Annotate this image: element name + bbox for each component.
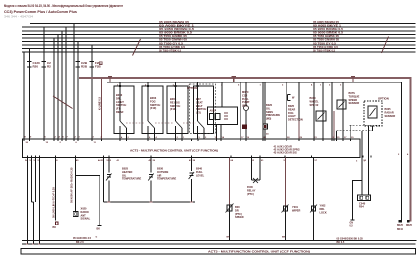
svg-text:WIPER: WIPER	[292, 208, 301, 212]
option dashed box right	[364, 101, 382, 126]
svg-text:2: 2	[55, 137, 57, 139]
svg-text:OIL: OIL	[266, 106, 271, 110]
wire drop x66	[65, 27, 67, 139]
svg-text:DETECTION: DETECTION	[288, 118, 303, 122]
svg-text:5: 5	[238, 84, 240, 86]
radar sensor symbol	[368, 106, 377, 118]
svg-text:05 T050 GN/WH 05: 05 T050 GN/WH 05	[159, 39, 188, 42]
rail end labels	[406, 225, 413, 227]
drop from rail into B07	[197, 82, 199, 121]
svg-text:05 T050 GY 0.5: 05 T050 GY 0.5	[313, 42, 337, 45]
svg-text:41: 41	[117, 159, 120, 162]
sensor wire x191.4	[190, 158, 192, 172]
svg-text:LEVEL: LEVEL	[196, 173, 205, 177]
svg-text:LOCK: LOCK	[320, 210, 327, 214]
drop from rail into B002	[119, 82, 121, 121]
M070 fuel pump label	[242, 90, 250, 108]
wire B005 to unit	[181, 128, 183, 139]
wire B003 to unit	[154, 128, 156, 139]
svg-text:2: 2	[282, 84, 284, 86]
svg-text:M070: M070	[242, 90, 249, 94]
bus wire 3	[22, 30, 416, 32]
B025 oil temp sensor symbol	[107, 175, 111, 178]
B020 symbol	[263, 124, 268, 129]
B0xx PTC symbol	[227, 205, 232, 211]
relay F000 element	[253, 178, 258, 183]
B0xx PTC wire upper (maroon)	[229, 158, 231, 206]
svg-text:05 K000 AF SIG+ RADIO 0.35: 05 K000 AF SIG+ RADIO 0.35	[69, 167, 73, 203]
svg-text:FUEL: FUEL	[242, 97, 249, 101]
svg-text:BK 2.5: BK 2.5	[76, 241, 84, 244]
B07S label	[349, 91, 360, 105]
bus wire 2	[22, 26, 416, 28]
right rail end pad	[399, 220, 401, 223]
svg-text:05 G040/G050 BK 0.35: 05 G040/G050 BK 0.35	[337, 237, 364, 240]
svg-text:BK: BK	[282, 237, 286, 239]
cluster box middle	[208, 107, 238, 125]
svg-text:B010: B010	[310, 96, 317, 100]
unit top pin ticks	[24, 139, 350, 141]
branch wire step	[76, 176, 100, 226]
svg-text:11: 11	[94, 142, 97, 144]
bus wire 8	[22, 48, 416, 50]
bus wire 9	[22, 51, 416, 53]
box top entry pads	[119, 85, 199, 87]
svg-text:SENSOR: SENSOR	[385, 114, 396, 118]
svg-text:BK: BK	[53, 226, 57, 229]
Y002 label	[320, 204, 327, 215]
crossover slash mid	[133, 39, 141, 56]
svg-text:RADIO: RADIO	[81, 210, 89, 214]
svg-text:9: 9	[30, 137, 32, 139]
through wire B003	[147, 126, 149, 139]
wire B002 to unit	[126, 128, 128, 139]
svg-text:GN: GN	[350, 223, 354, 225]
svg-text:2: 2	[329, 84, 331, 86]
svg-text:REAR: REAR	[288, 107, 295, 111]
svg-text:0.5: 0.5	[350, 226, 354, 228]
svg-text:(F2): (F2)	[196, 111, 201, 115]
svg-text:RE.FOG: RE.FOG	[170, 100, 180, 104]
junction labels above ground A	[96, 237, 286, 239]
svg-text:38: 38	[193, 160, 196, 162]
svg-text:OIL: OIL	[122, 173, 127, 177]
svg-text:B030: B030	[157, 167, 164, 171]
sensor wire x108.8	[108, 158, 110, 173]
crossover slash right	[382, 37, 389, 54]
svg-text:OPTION: OPTION	[378, 97, 389, 101]
svg-text:(M3): (M3)	[266, 117, 271, 121]
svg-text:DRL: DRL	[116, 96, 122, 100]
pin numbers top of unit	[25, 133, 355, 139]
B020 oil pressure label	[266, 103, 280, 121]
divider x240.2	[239, 82, 241, 139]
sensor chain return wire x103.5	[103, 158, 105, 203]
divider x286.2	[285, 82, 287, 139]
crossover slash left area	[53, 96, 73, 109]
B025 label	[122, 167, 141, 181]
unit bottom pin ticks	[28, 155, 372, 157]
pin labels under box right	[356, 160, 366, 162]
svg-text:(F10): (F10)	[150, 106, 156, 110]
svg-text:B07S: B07S	[349, 91, 356, 95]
svg-text:B003: B003	[150, 96, 157, 100]
right rail end labels	[397, 225, 404, 231]
svg-text:TEMPERATURE: TEMPERATURE	[157, 177, 176, 181]
svg-text:BK: BK	[227, 237, 231, 239]
cluster out stub 1	[216, 125, 218, 139]
svg-text:FOG: FOG	[288, 111, 294, 115]
connector C140	[42, 62, 47, 68]
svg-text:3: 3	[340, 84, 342, 86]
wire x314 wheel sensor	[313, 82, 315, 139]
svg-text:4: 4	[59, 136, 61, 139]
B025 rear fog label	[288, 104, 303, 122]
svg-text:BK: BK	[97, 228, 101, 231]
svg-text:R2B: R2B	[81, 65, 88, 69]
dashed link upper	[350, 124, 382, 126]
hop marks on line B	[26, 243, 41, 245]
svg-text:OPTION: OPTION	[187, 86, 197, 90]
svg-text:DRL: DRL	[320, 207, 326, 211]
control unit box ACT3	[23, 139, 361, 158]
bus wire 1	[30, 23, 416, 25]
svg-text:64: 64	[231, 159, 234, 162]
wire drop x44	[43, 27, 45, 139]
svg-text:RD25: RD25	[406, 225, 413, 227]
wire x372.5 radar down	[372, 126, 374, 131]
branch end tick	[98, 225, 102, 227]
pin numbers inside unit top	[26, 142, 97, 144]
B005 radar label	[385, 107, 396, 118]
svg-text:05 T050 GN/WH 05: 05 T050 GN/WH 05	[313, 39, 340, 42]
svg-text:SPEED: SPEED	[349, 98, 358, 102]
svg-text:1: 1	[79, 137, 81, 139]
switch mechanical links	[126, 122, 196, 124]
plug symbol	[288, 95, 291, 101]
svg-text:RADAR: RADAR	[385, 110, 394, 114]
option dashed outline left	[190, 84, 216, 134]
svg-text:TEMPERATURE: TEMPERATURE	[122, 177, 141, 181]
wire x343	[342, 83, 344, 140]
dashed link lower	[337, 130, 373, 132]
Y002 symbol	[312, 206, 316, 211]
svg-text:WHEEL: WHEEL	[310, 99, 320, 103]
svg-text:61: 61	[261, 160, 264, 162]
svg-text:W: W	[292, 97, 295, 100]
F000 label	[247, 185, 256, 196]
svg-text:ACT3 - MULTIFUNCTION CONTROL: ACT3 - MULTIFUNCTION CONTROL UNIT (CCF F…	[130, 149, 218, 153]
sensor wire x151	[150, 158, 152, 173]
svg-text:05 9050 BR/BK 0.5: 05 9050 BR/BK 0.5	[159, 32, 193, 35]
svg-text:4: 4	[311, 83, 313, 86]
wire drop x24	[23, 52, 25, 139]
svg-text:1: 1	[320, 84, 322, 86]
svg-text:R20: R20	[33, 65, 39, 69]
svg-text:F000: F000	[247, 185, 253, 189]
svg-text:FOG: FOG	[150, 99, 156, 103]
svg-text:B002: B002	[116, 93, 123, 97]
svg-text:SWITCH: SWITCH	[150, 103, 160, 107]
B010 wheel label	[310, 96, 320, 107]
svg-text:05 9005 BK/WH 05: 05 9005 BK/WH 05	[313, 21, 340, 24]
svg-text:B020: B020	[266, 103, 273, 107]
bus wire 7	[22, 44, 416, 46]
switch contact in B07	[198, 121, 205, 128]
bottom wire x35.5	[35, 158, 37, 203]
svg-text:BK 0.5: BK 0.5	[337, 241, 345, 244]
svg-text:OUTSIDE: OUTSIDE	[157, 170, 169, 174]
wire drop x54	[53, 38, 55, 139]
svg-text:X020: X020	[81, 207, 88, 211]
box top pin numbers	[117, 83, 342, 86]
Y001 label	[292, 205, 301, 212]
svg-text:Y001: Y001	[292, 205, 299, 209]
svg-text:39: 39	[153, 160, 156, 162]
bus labels mid	[159, 21, 195, 53]
wire drop x92	[91, 45, 93, 139]
small net square	[56, 222, 59, 225]
wire x332	[331, 83, 333, 140]
svg-text:2: 2	[398, 154, 400, 156]
svg-text:05 9050 BR/BK 0.5: 05 9050 BR/BK 0.5	[313, 32, 344, 35]
connector C120	[27, 62, 32, 68]
divider x222 into cluster	[221, 82, 223, 107]
wire drop x58	[57, 34, 59, 139]
svg-text:7: 7	[67, 137, 69, 139]
svg-text:45: 45	[76, 159, 79, 162]
svg-text:8: 8	[25, 137, 27, 139]
svg-text:BELT: BELT	[196, 104, 203, 108]
svg-text:PRESSURE: PRESSURE	[266, 113, 280, 117]
svg-text:SWITCH: SWITCH	[116, 103, 126, 107]
B040 label	[196, 167, 205, 178]
svg-text:HEATED: HEATED	[122, 170, 132, 174]
svg-text:2: 2	[101, 137, 103, 139]
bottom wire x31.5	[31, 158, 33, 203]
svg-text:05 T050 VT/BK 0.5: 05 T050 VT/BK 0.5	[159, 49, 182, 52]
stub end label	[350, 223, 354, 228]
svg-text:SENSOR: SENSOR	[349, 101, 360, 105]
svg-text:3: 3	[356, 160, 358, 162]
svg-text:CC3) PowerComm Plus / AutoCo: CC3) PowerComm Plus / AutoComm Plus	[4, 9, 77, 14]
cluster out stub 2	[220, 125, 222, 139]
svg-text:05 L000 LIN A-T/C+F 0.35: 05 L000 LIN A-T/C+F 0.35	[52, 187, 56, 218]
pin numbers bottom of unit	[25, 159, 367, 162]
right wires to connector	[362, 125, 369, 195]
power rail (maroon)	[79, 78, 411, 222]
svg-text:K-LINE 0.5: K-LINE 0.5	[98, 96, 102, 110]
wire x323	[322, 83, 324, 140]
B0xx label	[235, 205, 244, 219]
B030 outside temp sensor symbol	[149, 175, 153, 178]
K-line wire maroon x101.5	[101, 78, 103, 139]
bottom wire x39.5	[39, 158, 41, 244]
svg-text:05 A005 BK/YE 1: 05 A005 BK/YE 1	[313, 25, 342, 28]
bottom wire x31.5 lower	[33, 202, 35, 244]
svg-text:B025: B025	[122, 167, 129, 171]
bottom wire x55.4 (LIN)	[54, 158, 56, 221]
through wire B002	[119, 126, 121, 139]
svg-text:SPEED: SPEED	[235, 215, 244, 219]
svg-text:B040: B040	[196, 167, 203, 171]
svg-text:5: 5	[45, 137, 47, 139]
svg-text:ANT: ANT	[81, 213, 87, 217]
B030 label	[157, 167, 176, 181]
maroon wire x333.8	[333, 111, 335, 139]
svg-text:05 G040 BK 2.5: 05 G040 BK 2.5	[73, 237, 92, 240]
svg-text:Y002: Y002	[320, 204, 327, 208]
relay F000 wires	[252, 158, 261, 181]
divider x262.8	[262, 82, 264, 139]
sensor common return	[104, 201, 196, 203]
wire drop x62	[61, 31, 63, 139]
bus wire 4	[22, 33, 416, 35]
left switch box B003	[142, 86, 163, 134]
bus wire 5	[22, 37, 416, 39]
svg-text:SEAT: SEAT	[196, 100, 203, 104]
svg-text:57: 57	[315, 160, 318, 162]
svg-text:4: 4	[121, 136, 123, 139]
svg-text:6: 6	[63, 137, 65, 139]
svg-text:2: 2	[60, 142, 62, 144]
svg-text:B025: B025	[288, 104, 295, 108]
svg-text:AIR: AIR	[157, 173, 162, 177]
control unit aux text	[274, 145, 300, 155]
svg-text:05 T050 GY 0.5: 05 T050 GY 0.5	[159, 42, 184, 45]
wire drop x29.5	[29, 49, 31, 139]
through wire B005	[175, 126, 177, 139]
switch contact in B003	[148, 121, 155, 128]
wire x350.3 down to unit	[349, 125, 351, 139]
ground line B	[22, 243, 416, 245]
switch contact in B002	[120, 121, 127, 128]
sensor symbol lower left right-block	[316, 111, 326, 121]
ground line A	[22, 239, 417, 241]
svg-text:R04: R04	[359, 205, 364, 209]
svg-text:(PTC): (PTC)	[247, 192, 254, 196]
temperature sensor symbol right	[337, 100, 346, 109]
rail junction x353	[352, 76, 354, 82]
svg-text:A010: A010	[210, 110, 217, 113]
svg-text:PUMP: PUMP	[242, 100, 250, 104]
bottom title bar	[21, 249, 415, 254]
svg-text:4: 4	[156, 136, 158, 139]
left switch box B005	[167, 86, 188, 134]
svg-text:F2B: F2B	[95, 65, 102, 69]
rail junction x110	[109, 76, 111, 82]
svg-text:BK10: BK10	[397, 229, 404, 231]
wire x246 fuel pump M070	[245, 82, 247, 105]
wire x299 rear fog detection	[298, 82, 300, 121]
svg-text:RELAY: RELAY	[247, 188, 256, 192]
svg-text:R2: R2	[47, 65, 51, 69]
svg-text:05 T050 VT/BK 0.5: 05 T050 VT/BK 0.5	[313, 49, 336, 52]
svg-text:05 9005 BK/WH 05: 05 9005 BK/WH 05	[159, 21, 190, 24]
bottom wire x75.6 (radio)	[75, 158, 77, 212]
M070 AND glyph	[242, 125, 247, 130]
svg-text:05 A005 BK/YE 1: 05 A005 BK/YE 1	[159, 25, 195, 28]
svg-text:SENS: SENS	[266, 110, 273, 114]
wire x336.5 down to unit	[336, 131, 338, 139]
svg-text:FUEL: FUEL	[196, 170, 203, 174]
through wire B07	[197, 126, 199, 139]
bus wire 6	[22, 40, 416, 42]
Y001 symbol	[284, 206, 288, 211]
B0xx PTC wire lower (black)	[229, 205, 231, 240]
svg-text:CO2: CO2	[242, 93, 248, 97]
svg-text:LIGHT: LIGHT	[288, 114, 296, 118]
connector C2B	[76, 62, 81, 68]
svg-text:43 AUX3 GEAR SIG: 43 AUX3 GEAR SIG	[274, 151, 297, 155]
switched rail (black)	[107, 82, 401, 222]
drop from rail into B005	[175, 82, 177, 121]
drop from rail into B003	[147, 82, 149, 121]
svg-text:ACT3 - MULTIFUNCTION CONTROL: ACT3 - MULTIFUNCTION CONTROL UNIT (CCF F…	[208, 250, 310, 254]
Y002 wire	[313, 158, 315, 241]
B040 fuel level sensor symbol	[189, 173, 193, 176]
connector C0xx box	[358, 195, 371, 201]
svg-text:G: G	[96, 237, 98, 239]
svg-text:1: 1	[260, 84, 262, 86]
svg-text:15: 15	[46, 142, 49, 144]
sensor line junction marks	[107, 201, 193, 203]
rail end pad	[407, 220, 409, 223]
svg-text:SPC 02: SPC 02	[310, 103, 319, 107]
net square x100	[99, 62, 102, 65]
svg-text:346 344 - 4547/34: 346 344 - 4547/34	[4, 15, 34, 19]
svg-text:3: 3	[93, 137, 95, 139]
svg-text:2: 2	[75, 137, 77, 139]
bus labels right	[313, 21, 344, 53]
bottom wire jog	[32, 201, 34, 203]
connector F2D	[90, 62, 95, 68]
option dashed box left	[194, 86, 214, 134]
wire x265 oil pressure B020	[264, 82, 266, 124]
C0xx label	[359, 202, 366, 209]
connector X020 symbol	[73, 212, 78, 217]
M070 motor symbol	[244, 106, 249, 111]
svg-text:B07: B07	[196, 97, 201, 101]
svg-text:(PTC): (PTC)	[235, 212, 242, 216]
wire drop x78	[77, 41, 79, 139]
svg-text:Модели с начала 54.00 54.25, 5: Модели с начала 54.00 54.25, 54.50 - Мно…	[4, 3, 123, 8]
sensor pin numbers	[101, 159, 192, 162]
svg-text:6: 6	[76, 142, 78, 144]
svg-text:B00: B00	[235, 205, 240, 209]
svg-text:62: 62	[252, 160, 255, 162]
svg-text:BK25: BK25	[397, 225, 404, 227]
left switch box B001	[114, 86, 134, 134]
bottom wire x27.5	[27, 158, 29, 244]
svg-text:30: 30	[26, 142, 29, 144]
X020 label	[81, 207, 91, 221]
switch contact in B005	[176, 121, 183, 128]
svg-text:14: 14	[222, 136, 225, 139]
svg-text:24: 24	[266, 133, 269, 136]
Y001 wire upper (maroon)	[285, 158, 287, 207]
rail junction x233.7	[233, 76, 235, 82]
svg-text:DR: DR	[235, 208, 239, 212]
svg-text:TORQUE: TORQUE	[349, 94, 360, 98]
svg-text:SIGNAL: SIGNAL	[81, 217, 91, 221]
svg-text:4: 4	[407, 153, 409, 156]
svg-text:B005: B005	[385, 107, 392, 111]
Y001 wire lower (black)	[285, 206, 287, 240]
wire B07 to unit	[203, 128, 205, 139]
wire drop x74	[73, 24, 75, 139]
